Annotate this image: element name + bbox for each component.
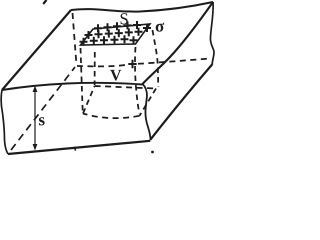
plus charges on patch [80,21,152,68]
+ charge [94,24,102,32]
gaussian box edge C-C' (dashed) [135,47,139,114]
gaussian box bottom edge B'-C' (dashed) [140,89,157,116]
slab right-end bottom cut edge [150,64,212,140]
+ charge [80,38,88,46]
hidden left-end bottom cut edge (dashed) [11,67,75,150]
thickness arrow head top [33,86,38,93]
label V [110,70,121,81]
slab front-top edge [2,83,143,90]
+ charge [85,31,93,39]
+ charge [121,35,129,43]
stray ink blob top [43,0,46,4]
+ charge [90,37,98,45]
thickness arrow head bottom [33,144,38,151]
slab left-end top cut edge [2,10,71,90]
stray ink blob bottom right [151,151,154,154]
slab front-right wavy cut edge [143,84,151,140]
hidden back-bottom edge left part (dashed) [77,65,127,67]
stray tick on bottom edge [74,147,77,151]
+ charge [124,21,132,29]
gaussian box bottom edge D'-A' (dashed) [83,86,95,114]
+ charge [100,36,108,44]
+ charge [105,30,113,38]
thickness arrow shaft [34,90,36,146]
+ charge [104,23,112,31]
+ charge [135,28,143,36]
label S [121,13,128,24]
slab right-end top cut edge [143,2,214,84]
+ charge [125,28,133,36]
hidden back-left vertical edge (dashed) [73,13,77,65]
slab back-top edge [71,2,213,12]
+ charge on hidden line [128,60,136,68]
+ charge [143,24,151,32]
+ charge [133,21,141,29]
+ charge [95,30,103,38]
+ charge [111,36,119,44]
gaussian box edge D-D' (dashed) [81,48,83,112]
hidden back-bottom edge right part (dashed) [138,59,210,64]
slab left wavy cut edge [1,90,8,154]
gaussian box bottom edge C'-D' (dashed) [83,114,140,119]
label s [39,117,45,125]
charged patch S outline [81,24,151,45]
+ charge [113,22,121,30]
+ charge [115,29,123,37]
gaussian box edge B-B' (dashed, below sigma) [153,30,159,87]
+ charge [130,36,138,44]
label sigma [156,23,165,32]
gaussian box bottom edge A'-B' (dashed) [95,86,156,89]
gaussian box edge A-A' (dashed) [94,52,96,85]
slab right-end back vertical wavy edge [210,2,214,64]
slab front-bottom edge [8,141,150,154]
